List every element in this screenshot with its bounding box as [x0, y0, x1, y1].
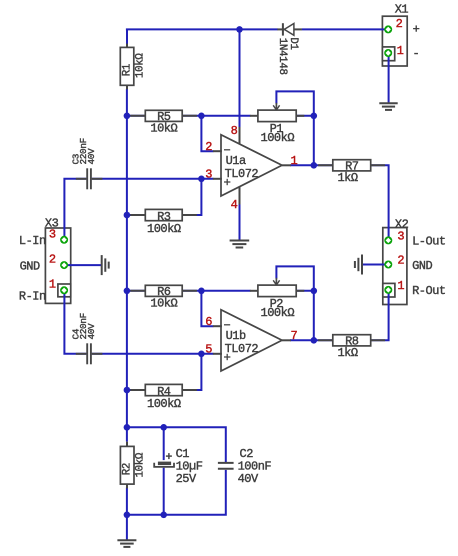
- junction bus / C1 top rail: [124, 424, 131, 431]
- wire R4 right riser to pin 5 node: [200, 354, 202, 391]
- svg-text:1kΩ: 1kΩ: [337, 346, 357, 360]
- connector X1 pin-1 marker box: [382, 47, 394, 61]
- ground at bottom of bus: [117, 540, 136, 547]
- pin X2.1 connection: [384, 286, 392, 294]
- pin X3.1 connection: [60, 286, 68, 294]
- resistor R5 pin leads: [130, 115, 197, 117]
- capacitor C3 plates: [87, 168, 91, 189]
- op-amp U1a output pin stub: [282, 164, 291, 166]
- wire R5 row from bus to P1 left terminal: [127, 115, 251, 117]
- svg-text:2: 2: [397, 254, 404, 268]
- junction bus / R4 left: [124, 387, 131, 394]
- wire X2 pin 2 to ground symbol: [362, 264, 385, 266]
- svg-text:TL072: TL072: [225, 167, 259, 181]
- svg-text:R-In: R-In: [19, 289, 46, 303]
- svg-text:5: 5: [205, 343, 212, 357]
- junction C1 bottom: [160, 512, 167, 519]
- svg-text:40V: 40V: [86, 148, 97, 165]
- svg-text:D1: D1: [287, 37, 299, 49]
- ground at U1a pin 4: [230, 241, 250, 248]
- wire R4 row from bus to corner: [127, 389, 201, 391]
- potentiometer P1 terminal leads: [250, 115, 304, 117]
- junction ground rail / bus: [124, 512, 131, 519]
- svg-text:25V: 25V: [176, 472, 197, 486]
- op-amp U1a non-inverting input marker: [224, 179, 230, 185]
- svg-text:3: 3: [205, 168, 212, 182]
- svg-text:4: 4: [231, 198, 238, 212]
- potentiometer P2 terminal leads: [250, 290, 304, 292]
- pin X2.2 connection: [384, 261, 392, 269]
- resistor R5 body: [145, 110, 182, 121]
- wire half-supply bus (vertical): [126, 89, 128, 442]
- potentiometer P1 body: [258, 110, 296, 122]
- wire U1a pin 4 to ground: [239, 204, 241, 240]
- svg-text:6: 6: [205, 315, 212, 329]
- resistor R6 pin leads: [130, 290, 197, 292]
- svg-text:1N4148: 1N4148: [276, 38, 288, 75]
- op-amp U1b inverting input marker: [224, 324, 230, 326]
- capacitor C3 pin leads: [76, 178, 103, 180]
- wire U1a pin 8 riser to +V rail: [239, 29, 241, 127]
- pin X1.2 connection: [384, 25, 392, 33]
- connector X2 body: [383, 228, 407, 305]
- pin X3.2 connection: [60, 261, 68, 269]
- junction bus / R6 left: [124, 288, 131, 295]
- resistor R1 body: [120, 47, 134, 85]
- junction R6 right / pin 6 node: [198, 288, 205, 295]
- capacitor C4 pin leads: [76, 353, 103, 355]
- wire P1 right terminal to output column: [296, 115, 314, 117]
- wire U1b output to R8 and up to X2 pin 1: [290, 292, 389, 340]
- op-amp U1a power pin stubs (8 top, 4 bottom): [239, 127, 241, 204]
- junction P2 right terminal / wiper column: [311, 288, 318, 295]
- junction C1 top: [160, 424, 167, 431]
- diode D1 pin leads: [277, 28, 302, 30]
- wire P1 wiper loop to output column: [276, 91, 313, 165]
- connector X3 pin-1 marker box: [58, 284, 71, 297]
- op-amp U1b body: [221, 310, 282, 371]
- diode D1 body: [283, 23, 294, 35]
- connector X1 body: [382, 16, 407, 66]
- svg-text:TL072: TL072: [225, 342, 259, 356]
- wire X3 pin 3 riser to C3: [64, 179, 86, 237]
- svg-text:R-Out: R-Out: [412, 284, 446, 298]
- svg-text:2: 2: [396, 17, 403, 31]
- resistor R4 pin leads: [130, 389, 197, 391]
- connector X3 body: [45, 228, 70, 303]
- svg-text:-: -: [413, 46, 420, 60]
- op-amp U1b output pin stub: [282, 339, 291, 341]
- svg-text:40V: 40V: [86, 323, 97, 340]
- junction +V rail / pin 8 riser: [236, 26, 243, 33]
- svg-text:U1b: U1b: [226, 329, 246, 343]
- op-amp U1a input pin stubs: [213, 151, 222, 179]
- svg-text:GND: GND: [20, 259, 40, 273]
- svg-text:1: 1: [397, 279, 404, 293]
- junction bus / R5 left: [124, 113, 131, 120]
- wire bus to C1 top and over to C2 top: [127, 427, 226, 462]
- wire R3 row from bus to corner: [127, 214, 201, 216]
- svg-text:100kΩ: 100kΩ: [147, 397, 181, 411]
- wire node pin2: drop from R5 row to U1a pin 2: [201, 116, 213, 151]
- svg-text:10kΩ: 10kΩ: [150, 121, 177, 135]
- op-amp U1b non-inverting input marker: [224, 354, 230, 360]
- resistor R8 body: [333, 335, 371, 346]
- svg-text:2: 2: [49, 252, 56, 266]
- resistor R7 body: [333, 160, 371, 171]
- resistor R6 body: [145, 285, 182, 296]
- potentiometer P2 body: [258, 285, 296, 297]
- svg-text:40V: 40V: [238, 472, 259, 486]
- svg-text:+: +: [413, 22, 420, 36]
- capacitor C4 plates: [87, 343, 91, 364]
- wire C3 to U1a pin 3: [92, 178, 214, 180]
- wire P2 wiper loop to output column: [276, 266, 313, 340]
- svg-text:10kΩ: 10kΩ: [134, 452, 146, 477]
- resistor R3 body: [145, 209, 182, 220]
- resistor R2 body: [120, 446, 134, 484]
- ground at X1 pin 1: [379, 103, 397, 110]
- svg-text:R2: R2: [121, 463, 133, 475]
- wire X3 pin 1 riser to C4: [64, 293, 86, 354]
- resistor R8 pin leads: [318, 339, 385, 341]
- svg-text:L-In: L-In: [19, 234, 46, 248]
- connector X2 pin-1 marker box: [383, 283, 395, 297]
- pin X3.3 connection: [60, 236, 68, 244]
- pin X1.1 connection: [384, 49, 392, 57]
- wire bus below R2 to ground: [126, 488, 128, 540]
- wire P2 right terminal to output column: [296, 290, 314, 292]
- svg-text:100kΩ: 100kΩ: [147, 222, 181, 236]
- svg-text:X1: X1: [395, 2, 409, 16]
- svg-text:10kΩ: 10kΩ: [134, 53, 146, 78]
- svg-text:100kΩ: 100kΩ: [261, 131, 295, 145]
- svg-text:2: 2: [205, 140, 212, 154]
- pin X2.3 connection: [384, 236, 392, 244]
- potentiometer P1 wiper arrow: [273, 103, 279, 110]
- op-amp U1a body: [221, 135, 282, 196]
- wire C1 top lead: [163, 427, 165, 460]
- resistor R7 pin leads: [318, 164, 385, 166]
- svg-text:GND: GND: [412, 259, 432, 273]
- wire +V top rail from D1 to X1 pin 2: [302, 28, 385, 30]
- svg-text:10kΩ: 10kΩ: [150, 296, 177, 310]
- svg-text:R1: R1: [121, 64, 133, 76]
- svg-text:7: 7: [290, 329, 297, 343]
- resistor R4 body: [145, 384, 182, 395]
- wire X1 pin 1 to ground: [388, 55, 390, 103]
- op-amp U1a inverting input marker: [224, 149, 230, 151]
- resistor R3 pin leads: [130, 214, 197, 216]
- junction pin 3 node / R3 branch: [198, 176, 205, 183]
- wire C4 to U1b pin 5: [92, 353, 214, 355]
- svg-text:L-Out: L-Out: [412, 234, 446, 248]
- svg-text:8: 8: [231, 124, 238, 138]
- svg-text:3: 3: [397, 230, 404, 244]
- junction R5 right / pin 2 node: [198, 113, 205, 120]
- junction pin 5 node / R4 branch: [198, 351, 205, 358]
- wire X3 pin 2 to ground symbol: [68, 264, 102, 266]
- svg-text:100kΩ: 100kΩ: [261, 306, 295, 320]
- wire node pin6: drop from R6 row to U1b pin 6: [201, 291, 213, 326]
- ground at X2 pin 2: [355, 255, 362, 275]
- junction U1a output node: [311, 162, 318, 169]
- potentiometer P2 wiper arrow: [273, 278, 279, 285]
- svg-text:1: 1: [49, 278, 56, 292]
- wire R6 row from bus to P2 left terminal: [127, 290, 251, 292]
- svg-text:U1a: U1a: [226, 154, 246, 168]
- svg-text:1: 1: [290, 154, 297, 168]
- wire U1a output to R7 and down to X2 pin 3: [290, 165, 389, 240]
- junction bus / R3 left: [124, 212, 131, 219]
- ground at X3 pin 2: [102, 255, 109, 275]
- capacitor C1 polarized plates and plus sign: [154, 453, 174, 467]
- svg-text:1kΩ: 1kΩ: [337, 171, 357, 185]
- svg-text:3: 3: [49, 227, 56, 241]
- wire R1 top stub: [126, 29, 128, 44]
- wire R3 right riser to pin 3 node: [200, 179, 202, 216]
- capacitor C2 plates: [218, 463, 234, 469]
- resistor R1 pin leads: [126, 44, 128, 90]
- svg-text:1: 1: [397, 44, 404, 58]
- junction U1b output node: [311, 337, 318, 344]
- op-amp U1b input pin stubs: [213, 326, 222, 354]
- wire C2 bottom to ground rail: [127, 470, 226, 515]
- wire +V top rail from R1 to D1 anode side: [126, 28, 278, 30]
- junction P1 right terminal / wiper column: [311, 113, 318, 120]
- resistor R2 pin leads: [126, 442, 128, 489]
- wire C1 bottom lead: [163, 468, 165, 515]
